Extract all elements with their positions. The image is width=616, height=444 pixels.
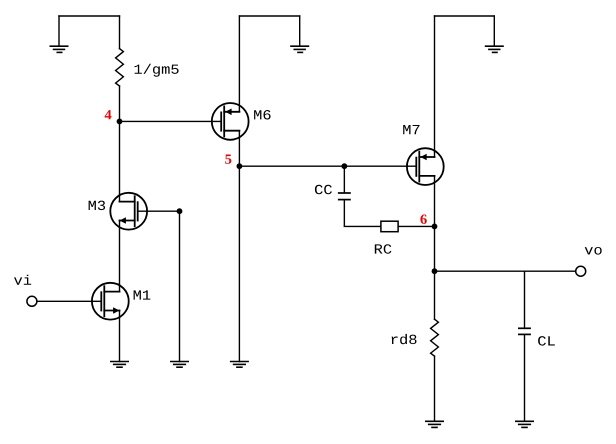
wire M3 gate junction down to ground <box>179 211 181 361</box>
transistor M6 <box>212 103 249 140</box>
node 4 junction dot <box>117 119 123 125</box>
resistor R 1/gm5 <box>116 49 124 86</box>
label CL <box>538 336 555 346</box>
label RC <box>375 244 392 254</box>
wire CC bottom to RC <box>344 225 380 227</box>
ground under rd8 <box>425 421 444 427</box>
label M3 <box>89 201 106 211</box>
wire top middle vertical to ground <box>299 16 301 46</box>
label rd8 <box>392 334 417 344</box>
ground G3 top right <box>485 46 504 52</box>
ground under CL <box>515 421 534 427</box>
wire vo junction to port vo <box>435 270 576 272</box>
label M1 <box>134 290 151 299</box>
node 6 junction dot <box>432 224 438 230</box>
wire node 4 to M6 gate <box>120 120 222 122</box>
node junction at M3 gate <box>177 208 183 214</box>
label 1/gm5 <box>135 64 179 77</box>
transistor M3 <box>110 193 147 230</box>
resistor RC box <box>381 221 398 232</box>
wire top right horizontal <box>435 15 495 17</box>
ground G1 top-left <box>50 46 69 52</box>
transistor M1 <box>92 283 129 320</box>
wire rd8 bottom to ground <box>434 356 436 421</box>
node 5 junction dot <box>237 163 243 169</box>
wire node 4 down to M3 drain <box>119 121 121 201</box>
ground G2 top middle <box>290 46 309 52</box>
wire M3 gate lead <box>138 210 180 212</box>
wire RC to node 6 <box>399 225 435 227</box>
label vi <box>14 275 31 285</box>
node 6 label <box>420 215 426 224</box>
wire rail B top to M6 drain <box>238 16 240 112</box>
ground under M1 <box>110 362 129 368</box>
wire node 5 down to ground <box>238 166 240 361</box>
node junction above CC <box>341 163 347 169</box>
wire top right vertical to ground <box>493 16 495 46</box>
wire vo junction down to rd8 <box>434 271 436 319</box>
wire vi to M1 gate <box>37 300 101 302</box>
wire rail A top to resistor <box>119 16 121 49</box>
port vi circle <box>27 296 37 306</box>
port vo circle <box>576 266 586 276</box>
wire M7 source down to node 6 <box>434 176 436 227</box>
label M7 <box>403 125 419 134</box>
wire node 6 down to vo junction <box>434 226 436 271</box>
capacitor CL <box>518 271 531 421</box>
wire M6 source down to node 5 <box>238 131 240 167</box>
wire top-left horizontal <box>59 15 120 17</box>
node 5 label <box>225 155 231 164</box>
wire rail C top to M7 drain <box>434 16 436 157</box>
resistor rd8 <box>431 319 439 356</box>
label M6 <box>254 110 271 120</box>
label vo <box>585 247 602 255</box>
wire top-left vertical to ground <box>58 16 60 46</box>
wire top middle horizontal <box>239 15 299 17</box>
wire M1 source down to ground <box>119 311 121 362</box>
ground under rail B <box>230 362 249 368</box>
transistor M7 <box>407 148 444 185</box>
wire M3 source to M1 drain <box>119 221 121 292</box>
wire CC junction to M7 gate <box>344 165 416 167</box>
node 4 label <box>105 110 112 119</box>
capacitor CC <box>338 166 351 226</box>
ground under M3 gate line <box>170 362 189 368</box>
node junction at vo wire <box>432 268 438 274</box>
wire node 5 to CC junction <box>239 165 344 167</box>
label CC <box>315 185 332 195</box>
wire resistor bottom to node 4 <box>119 86 121 121</box>
